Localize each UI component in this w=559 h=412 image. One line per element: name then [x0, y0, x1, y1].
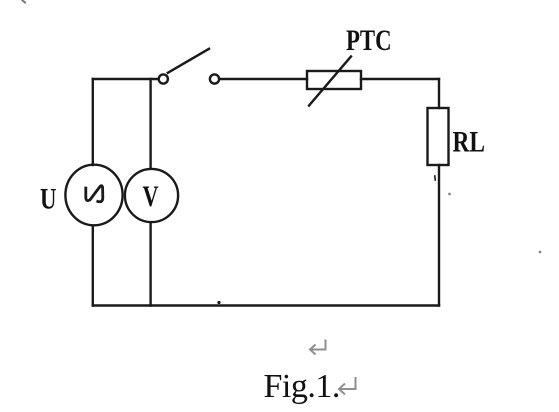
wire left vertical upper [92, 79, 94, 165]
switch right terminal node [210, 74, 219, 83]
svg-text:Fig.1.: Fig.1. [264, 368, 340, 405]
wire bottom horizontal [93, 304, 439, 306]
stray mark top-left [23, 1, 26, 3]
svg-text:U: U [40, 181, 56, 215]
junction dot on bottom wire [217, 301, 220, 304]
wire from PTC to right corner [361, 78, 439, 80]
wire left vertical lower [92, 226, 94, 306]
PTC diagonal stroke [309, 57, 351, 106]
wire second vertical upper [149, 79, 151, 168]
wire top horizontal from left branch to switch [93, 78, 158, 80]
wire from switch to PTC [220, 78, 307, 80]
wire right vertical upper [438, 79, 440, 108]
tick on wire below RL [434, 176, 436, 180]
wire right vertical lower [438, 165, 440, 306]
paragraph return mark after caption [339, 377, 356, 395]
PTC thermistor body [307, 71, 361, 89]
svg-text:V: V [143, 179, 159, 213]
artifact dot far right [539, 251, 542, 254]
switch left terminal node [159, 74, 168, 83]
artifact dot right of RL [448, 193, 451, 196]
resistor RL body [428, 108, 449, 165]
svg-text:PTC: PTC [346, 23, 392, 57]
switch lever (open blade) [168, 49, 209, 73]
source U sine symbol [86, 186, 103, 202]
wire second vertical lower [149, 223, 151, 306]
svg-text:RL: RL [453, 125, 485, 158]
paragraph return mark upper [310, 340, 326, 355]
voltmeter V circle [125, 169, 178, 222]
source U circle [65, 165, 122, 226]
